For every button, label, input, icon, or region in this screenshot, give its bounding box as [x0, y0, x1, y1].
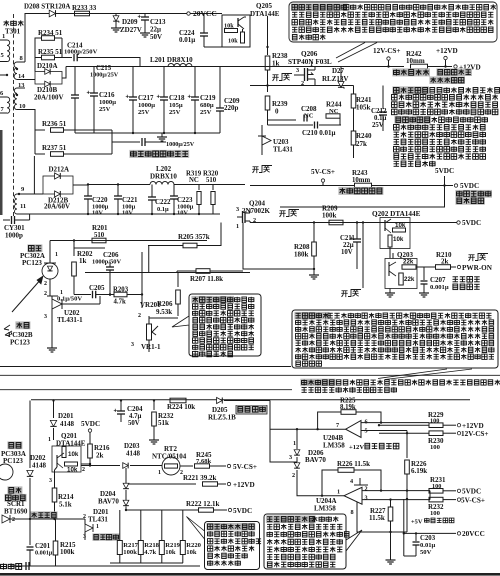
svg-text:5VDC: 5VDC: [233, 507, 252, 515]
svg-text:+12VD: +12VD: [233, 481, 255, 489]
svg-text:10k: 10k: [165, 549, 176, 556]
svg-text:1000p: 1000p: [5, 232, 23, 240]
svg-text:D210A: D210A: [37, 62, 58, 70]
svg-text:2k: 2k: [441, 258, 449, 266]
diode D201a: [53, 401, 55, 419]
svg-text:1000μ: 1000μ: [99, 99, 116, 106]
svg-text:+: +: [138, 15, 142, 21]
svg-text:开: 开: [252, 166, 259, 174]
svg-text:4.7k: 4.7k: [114, 299, 126, 306]
ground for C213: [140, 32, 150, 34]
svg-text:D212A: D212A: [49, 166, 70, 174]
resistor R216: [89, 440, 91, 444]
inductor L202: [150, 182, 174, 185]
left edge dark strip: [0, 130, 3, 215]
wire R238 down to switch node: [267, 70, 269, 86]
svg-text:10k: 10k: [393, 236, 404, 243]
svg-text:+5V: +5V: [411, 519, 423, 526]
leader line from annotation box to Q206: [336, 43, 365, 59]
filter cap C218: [163, 67, 165, 98]
svg-text:C219: C219: [200, 94, 216, 102]
svg-text:PWR-ON: PWR-ON: [462, 264, 493, 272]
svg-text:5V-CS+: 5V-CS+: [233, 463, 257, 471]
svg-text:5VDC: 5VDC: [81, 420, 100, 428]
ground rail Q203: [389, 289, 391, 294]
cap C212: [382, 86, 384, 110]
svg-text:C205: C205: [89, 284, 105, 292]
svg-text:2: 2: [365, 486, 368, 493]
svg-text:C218: C218: [169, 94, 185, 102]
label line-circuit: [1, 563, 7, 569]
rectifier diode D210B: [45, 81, 50, 87]
junction dots secondary rail: [87, 183, 89, 185]
svg-text:BAV70: BAV70: [98, 498, 119, 506]
filter cap C221: [117, 185, 119, 197]
wire R216 to Q201 out: [81, 463, 90, 465]
svg-text:C210 0.01μ: C210 0.01μ: [302, 129, 336, 137]
svg-text:0.01μ: 0.01μ: [420, 542, 436, 549]
terminal 20VCC: [187, 12, 190, 15]
svg-text:1: 1: [337, 489, 340, 496]
svg-text:R243: R243: [352, 169, 368, 177]
svg-text:Q202 DTA144E: Q202 DTA144E: [372, 210, 421, 218]
svg-text:R235 51: R235 51: [38, 48, 63, 56]
filter cap C222: [151, 185, 153, 198]
transformer T301 core (dashed): [13, 14, 15, 218]
svg-text:12V-CS+: 12V-CS+: [461, 430, 489, 438]
wire Q202 collector down: [389, 247, 391, 258]
annotation box: on/off control circuit description: [289, 2, 497, 42]
svg-text:C212: C212: [371, 107, 387, 115]
svg-text:10k: 10k: [67, 467, 78, 474]
svg-text:开: 开: [279, 210, 286, 218]
svg-text:+: +: [157, 95, 161, 101]
svg-text:TL431: TL431: [273, 146, 293, 154]
svg-text:ZD27V: ZD27V: [120, 26, 142, 34]
annotation box: protection circuit description: [292, 310, 498, 368]
resistor R222: [126, 509, 198, 511]
svg-text:R224 10k: R224 10k: [167, 403, 195, 411]
resistor R209: [329, 220, 343, 225]
label PC302B: [15, 321, 30, 329]
zener D27: [340, 67, 342, 81]
svg-text:关: 关: [479, 253, 486, 262]
svg-text:12V-CS+: 12V-CS+: [373, 47, 401, 55]
wire left vertical down: [29, 401, 31, 464]
wire R226 feedback: [322, 470, 338, 496]
svg-text:开: 开: [272, 74, 279, 82]
transformer T301 label: [4, 20, 10, 26]
svg-text:LM358: LM358: [314, 505, 336, 513]
terminal +12VD bottom: [227, 482, 230, 485]
svg-text:NTC/05104: NTC/05104: [152, 453, 187, 461]
svg-text:+12V: +12V: [349, 444, 364, 451]
diode D205: [217, 397, 223, 403]
wire Q204 source down: [243, 223, 314, 270]
svg-text:关: 关: [283, 73, 290, 82]
resistor R227: [390, 500, 392, 507]
resistor R232b 51k: [153, 401, 155, 411]
svg-text:180k: 180k: [294, 251, 309, 259]
ground symbol filter bank: [161, 133, 163, 137]
SCR symbol: [2, 515, 10, 523]
svg-text:C216: C216: [99, 91, 115, 99]
wire Q206 drain top: [307, 66, 341, 68]
svg-text:22k: 22k: [403, 259, 414, 266]
svg-text:510: 510: [94, 232, 105, 239]
annotation box: overvoltage protection (narrow): [205, 522, 260, 570]
svg-text:10k: 10k: [68, 451, 79, 458]
cap C205: [74, 294, 91, 296]
svg-text:1: 1: [55, 252, 58, 258]
svg-text:R205 357k: R205 357k: [178, 233, 210, 241]
wire 12V-CS to R242: [388, 60, 390, 67]
wire 5V-CS rail: [322, 182, 324, 186]
MOSFET Q206 symbol: [294, 74, 305, 76]
svg-text:RLZ5.1B: RLZ5.1B: [208, 414, 236, 422]
potentiometer VR1-1: [147, 324, 152, 340]
svg-text:2: 2: [82, 467, 85, 473]
Q201 box: [52, 446, 81, 472]
Q202 internal resistor 10k horizontal: [393, 228, 406, 232]
svg-text:25V: 25V: [372, 122, 384, 129]
transformer secondary winding 9-11: [15, 194, 18, 214]
svg-text:NC: NC: [329, 108, 339, 115]
svg-text:6: 6: [365, 419, 368, 426]
wire R242 to +12VD: [427, 66, 452, 68]
wire D206 connections: [270, 461, 298, 463]
Q201 internal resistor 10k h: [65, 462, 78, 466]
svg-text:DTA144E: DTA144E: [250, 10, 280, 18]
svg-text:25V: 25V: [99, 106, 111, 113]
svg-text:3: 3: [49, 478, 52, 484]
U202 TL431 symbol: [52, 299, 62, 309]
svg-text:+12VD: +12VD: [462, 422, 484, 430]
svg-text:1: 1: [48, 437, 51, 443]
wire 5V rail to R231/R232: [429, 491, 431, 500]
wires protect row: [29, 497, 31, 540]
wires divider bottom rail: [110, 562, 183, 564]
svg-text:10: 10: [19, 103, 26, 110]
svg-text:7: 7: [336, 422, 339, 429]
ground R227: [390, 532, 392, 560]
capacitor C206: [74, 247, 105, 249]
svg-text:开: 开: [341, 290, 348, 298]
transformer secondary winding 8-14: [17, 61, 25, 63]
label on/off level shift: [453, 277, 459, 282]
wire op-amp B pin5: [361, 430, 407, 432]
svg-text:0.1μ: 0.1μ: [374, 115, 386, 122]
svg-text:3: 3: [365, 495, 368, 502]
svg-text:R220: R220: [186, 542, 201, 549]
resistor R226 6.19k vertical: [406, 433, 408, 458]
gray label: overcurrent sampling (top): [392, 68, 430, 76]
svg-text:5VDC: 5VDC: [435, 167, 454, 175]
svg-text:关: 关: [263, 165, 270, 174]
svg-text:2k: 2k: [96, 452, 104, 460]
terminal 5V-CS+ bottom: [227, 464, 230, 467]
transistor Q205 internal network box: [222, 15, 250, 47]
svg-text:10V: 10V: [92, 210, 103, 217]
svg-text:D209: D209: [122, 18, 138, 26]
rectifier diode D212B: [55, 191, 61, 197]
resistor R218: [138, 541, 143, 555]
wire bottom-left rail: [10, 518, 85, 520]
wire U203 vertical: [261, 125, 263, 133]
cap C211: [356, 223, 358, 240]
ground for D209: [115, 24, 117, 28]
Q201 transistor: [56, 455, 58, 467]
svg-text:10V: 10V: [177, 210, 188, 217]
resistor R229: [379, 424, 429, 426]
svg-text:100: 100: [430, 510, 441, 517]
resistor R237: [35, 153, 45, 155]
resistor R236: [25, 110, 45, 131]
svg-text:TL431: TL431: [88, 516, 108, 524]
annotation: repair tip about secondary filter caps: [394, 116, 431, 124]
terminal 5VDC bottom2: [228, 508, 231, 511]
cap C204: [120, 401, 122, 412]
arrows PC302B: [4, 325, 10, 329]
svg-text:Q206: Q206: [301, 50, 318, 58]
capacitor CY301: [3, 219, 10, 221]
svg-text:100k: 100k: [60, 548, 75, 556]
Q203 internal resistor 22k h: [402, 265, 416, 269]
svg-text:5V-CS+: 5V-CS+: [461, 496, 485, 504]
svg-text:2: 2: [292, 472, 295, 479]
svg-text:2: 2: [138, 313, 141, 319]
wire R237 column down: [33, 156, 35, 194]
transformer primary winding pins 3-6: [0, 74, 7, 76]
cap bottom left: [25, 562, 27, 570]
svg-text:DRBX10: DRBX10: [150, 173, 177, 181]
svg-text:3: 3: [83, 534, 86, 540]
svg-text:10k: 10k: [224, 23, 234, 30]
svg-text:+: +: [114, 409, 118, 415]
svg-text:100k: 100k: [322, 212, 337, 220]
cap C207: [423, 267, 425, 280]
cap C210: [314, 122, 316, 129]
svg-text:20VCC: 20VCC: [193, 9, 217, 18]
svg-text:R236 51: R236 51: [42, 120, 67, 128]
wire R207 to Q204 rail: [210, 270, 243, 272]
svg-text:NC: NC: [304, 113, 314, 120]
svg-text:PC123: PC123: [22, 259, 42, 267]
svg-text:51k: 51k: [158, 419, 169, 427]
svg-text:1: 1: [158, 470, 161, 476]
svg-text:VR1-1: VR1-1: [141, 343, 161, 351]
label SCR1: [7, 486, 22, 494]
svg-text:100: 100: [430, 444, 441, 451]
svg-text:1000μ/25V: 1000μ/25V: [90, 72, 119, 79]
cap C203: [415, 533, 417, 541]
wire op-amp A out loop: [357, 502, 391, 532]
optocoupler PC303A: [7, 441, 22, 449]
resistor R226 11.5k: [338, 468, 354, 473]
resistor R234: [35, 38, 41, 72]
svg-text:R201: R201: [92, 224, 108, 232]
gray label: power for main board control: [455, 190, 492, 198]
resistor R219: [159, 541, 164, 555]
svg-text:22k: 22k: [404, 276, 415, 283]
Q202 internal resistor 10k vertical: [388, 235, 392, 247]
svg-text:+: +: [126, 95, 130, 101]
wire from pin 8 up to top rail: [25, 14, 222, 63]
labels normal/protect: [236, 406, 267, 415]
svg-text:0.1μ/50V: 0.1μ/50V: [57, 296, 82, 303]
cap C209: [219, 67, 221, 109]
wire VR to R206: [149, 317, 178, 319]
svg-text:2: 2: [83, 514, 86, 520]
optocoupler PC302A pin2 wire down to U202: [49, 279, 51, 296]
svg-text:1: 1: [236, 223, 239, 230]
resistor R221: [126, 483, 196, 485]
annotation: repair tip about R242 R243 sampling resistors: [392, 86, 429, 94]
svg-text:1: 1: [60, 290, 63, 296]
svg-text:R218: R218: [144, 542, 159, 549]
resistor R239: [267, 86, 269, 93]
svg-text:10V: 10V: [122, 210, 133, 217]
resistor R245: [195, 464, 210, 468]
resistor R201: [92, 238, 106, 243]
svg-text:RLZ13V: RLZ13V: [322, 75, 348, 83]
svg-text:13: 13: [18, 82, 25, 89]
resistor R205: [183, 243, 197, 248]
svg-text:105k: 105k: [356, 104, 371, 112]
svg-text:1000p/50V: 1000p/50V: [92, 259, 122, 266]
wire 20VCC vertical: [403, 499, 405, 556]
wire op-amp B output: [270, 428, 346, 430]
Q201 internal resistor 10k v: [62, 447, 66, 458]
main bus wire +B: [66, 66, 307, 68]
svg-text:1000μ: 1000μ: [138, 102, 155, 109]
wire U202 cathode to network: [62, 303, 100, 305]
svg-text:50V: 50V: [420, 549, 432, 556]
svg-text:50V: 50V: [128, 420, 140, 427]
terminal PWR-ON: [457, 265, 460, 268]
op-amp U204B: [346, 421, 361, 438]
svg-text:R219: R219: [165, 542, 180, 549]
thermistor RT2: [162, 457, 180, 475]
bottom border line: [0, 573, 500, 576]
bottom wire C203: [404, 555, 416, 557]
svg-text:100: 100: [430, 418, 439, 425]
svg-text:8: 8: [351, 509, 354, 516]
annotation box: overcurrent protection: [264, 514, 346, 569]
svg-text:关: 关: [290, 209, 297, 218]
svg-text:25V: 25V: [169, 109, 181, 116]
resistor R203: [114, 292, 127, 297]
wire Q203 base to R210: [416, 266, 435, 268]
resistor R210: [436, 265, 451, 270]
pointer for overcurrent box: [346, 530, 362, 551]
source rail wire: [250, 85, 354, 87]
svg-text:D27: D27: [332, 67, 345, 75]
svg-text:R233 33: R233 33: [72, 4, 97, 12]
Q205 transistor symbol: [237, 18, 239, 27]
resistor R319 NC: [198, 185, 200, 191]
op-amp A input rails: [362, 490, 430, 492]
svg-text:4.7k: 4.7k: [144, 549, 156, 556]
svg-text:4148: 4148: [126, 450, 141, 458]
resistor R320 510: [212, 185, 214, 191]
resistor R242: [411, 64, 428, 69]
svg-text:27k: 27k: [356, 140, 367, 148]
cap C208 NC: [268, 119, 297, 121]
svg-text:PC123: PC123: [10, 339, 30, 347]
arrow to PC302A: [12, 278, 42, 312]
resistor R238: [265, 56, 270, 70]
svg-text:20VCC: 20VCC: [462, 530, 485, 538]
Q205 internal resistor 10k (2): [241, 32, 245, 43]
wire Q201 emitter down: [54, 472, 56, 488]
svg-text:C204: C204: [127, 405, 143, 413]
cap C225 wire: [111, 130, 113, 154]
svg-text:L201 DR8X10: L201 DR8X10: [150, 56, 193, 64]
svg-text:LM358: LM358: [323, 442, 345, 450]
resistor R240: [351, 131, 356, 145]
wire Q205 to R238: [267, 16, 269, 55]
svg-text:2: 2: [44, 281, 47, 287]
svg-text:10mm: 10mm: [352, 177, 370, 184]
svg-text:0: 0: [275, 108, 279, 116]
svg-text:R226 11.5k: R226 11.5k: [337, 460, 370, 468]
ground bus under caps: [94, 132, 220, 134]
svg-text:关: 关: [352, 289, 359, 298]
wire D205 to right: [224, 400, 270, 402]
svg-text:510: 510: [206, 177, 217, 184]
ground bottom rail: [29, 560, 31, 566]
transformer secondary winding 13-10: [17, 87, 25, 89]
gray label: overcurrent sampling: [338, 187, 383, 195]
capacitor C213 electrolytic: [144, 14, 146, 18]
svg-text:Q205: Q205: [256, 2, 272, 10]
svg-text:20A/100V: 20A/100V: [34, 94, 64, 102]
svg-text:C203: C203: [420, 535, 436, 542]
svg-text:4.7μ: 4.7μ: [129, 413, 141, 420]
pointer from stabilizer box to VR1-1: [172, 316, 189, 327]
wire Q204 drain rail: [250, 222, 458, 224]
svg-text:VR201: VR201: [140, 301, 161, 309]
svg-text:TL431-1: TL431-1: [57, 316, 83, 324]
wire RT2 to R245: [180, 465, 193, 467]
Q205 internal resistor 10k: [225, 29, 238, 33]
svg-text:11: 11: [20, 203, 26, 210]
svg-text:R222 12.1k: R222 12.1k: [186, 500, 220, 508]
svg-text:0.01μ: 0.01μ: [179, 36, 195, 44]
wire R205 column down: [148, 246, 150, 273]
resistor R241: [353, 86, 355, 95]
optocoupler PC302A label: [27, 244, 42, 252]
svg-text:2: 2: [44, 291, 47, 297]
wire R226b bottom join: [391, 531, 408, 533]
cap C201: [29, 540, 31, 545]
labels normal/protect TL431: [92, 533, 106, 540]
svg-text:R234 51: R234 51: [38, 29, 63, 37]
svg-text:BT1690: BT1690: [4, 508, 28, 516]
svg-text:5V-CS+: 5V-CS+: [311, 168, 335, 176]
svg-text:+12VD: +12VD: [436, 47, 458, 55]
svg-text:3: 3: [236, 206, 239, 213]
terminal 20VCC bottom: [404, 532, 456, 534]
resistor R243: [355, 183, 372, 188]
resistor R230: [379, 432, 429, 434]
resistor R232r: [429, 497, 443, 502]
svg-text:1: 1: [293, 440, 296, 447]
svg-text:11.5k: 11.5k: [369, 514, 385, 522]
wire op-amp B pin6: [361, 422, 429, 424]
svg-text:3: 3: [131, 342, 134, 348]
